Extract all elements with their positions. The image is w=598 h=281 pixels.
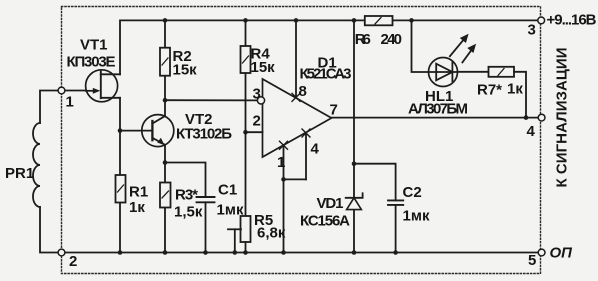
svg-text:К521СА3: К521СА3 [300,66,352,83]
node: pin 8 top on rail [294,18,299,23]
svg-text:КС156А: КС156А [300,213,350,230]
node: VD1 bottom on rail [352,250,357,255]
LED HL1 [429,58,458,87]
pin 1 cross mark [280,141,288,149]
svg-text:PR1: PR1 [5,165,34,182]
svg-text:ОП: ОП [550,245,574,262]
resistor R5 [241,216,251,242]
wire: pin 8 from top rail [295,20,297,97]
svg-text:3: 3 [528,22,536,39]
svg-text:1: 1 [66,94,74,111]
svg-text:КП303Е: КП303Е [67,54,116,71]
node: C1 bottom on rail [203,250,208,255]
wire: C1 branch [165,163,206,198]
terminal 4 [538,114,545,121]
node: LED branch on rail [409,18,414,23]
svg-text:2: 2 [69,253,77,270]
resistor R6 [365,16,393,25]
node: R7 branch on output line [524,115,529,120]
inductor PR1 sensor coil [33,91,58,253]
wire: pin 4 down [305,133,307,179]
resistor R3* [160,183,171,208]
node: VT2 collector junction [163,98,168,103]
wire: VT2 base [120,130,152,132]
wire: R7 to output line [514,72,526,118]
svg-text:4: 4 [311,141,320,158]
node: R5 tap on rail [233,250,238,255]
wire: R4 / R5 vertical [245,20,247,216]
svg-text:C2: C2 [403,184,422,201]
node: VD1 / C2 junction [352,161,357,166]
node: op-amp ground on rail [281,250,286,255]
node: emitter / C1 junction [163,160,168,165]
capacitor C2 [388,200,403,252]
transistor VT1 (JFET) [86,70,120,102]
node: R3 bottom on rail [163,250,168,255]
wire: pin1-pin4 link [284,178,307,180]
pin 4 cross mark [302,129,310,137]
svg-text:1к: 1к [507,81,523,98]
wire: top supply rail from VT1 drain to terminal 3 [120,20,538,74]
svg-text:6,8к: 6,8к [257,225,286,242]
svg-text:1мк: 1мк [217,202,244,219]
svg-text:15к: 15к [251,59,276,76]
wire: VT2 emitter down through R3 to rail [164,145,166,253]
node: C2 bottom on rail [393,250,398,255]
wire: op-amp ground to rail [283,179,285,252]
wire: op-amp pin 2 [246,131,263,133]
op-amp D1 triangle [263,79,332,157]
svg-text:VT1: VT1 [80,37,108,54]
wire: R2 lead / VT2 collector [164,20,166,116]
node: R5 bottom on rail [243,250,248,255]
zener diode VD1 [346,193,363,209]
svg-text:5: 5 [528,252,536,269]
node: R4 top on rail [243,18,248,23]
pin 3 inverting input circle [257,97,264,104]
svg-text:7: 7 [330,102,338,119]
svg-text:8: 8 [299,83,307,100]
transistor VT2 (NPN) [142,115,174,147]
node: VD1 top on rail [352,18,357,23]
resistor R1 [116,175,126,203]
pin 8 cross mark [292,93,300,101]
svg-text:3: 3 [253,86,261,103]
svg-text:КТ3102Б: КТ3102Б [176,126,232,143]
svg-text:+9...16В: +9...16В [547,12,597,29]
svg-text:R3*: R3* [175,187,198,204]
svg-text:4: 4 [527,123,536,140]
wire: VT1 gate to node 1 [65,90,86,92]
svg-text:VD1: VD1 [317,195,344,212]
svg-text:R6: R6 [355,31,371,48]
R5 tap to rail [228,229,241,252]
svg-text:15к: 15к [173,62,198,79]
terminal 3 [538,17,545,24]
svg-text:К СИГНАЛИЗАЦИИ: К СИГНАЛИЗАЦИИ [554,48,571,188]
wire: op-amp output pin 7 to terminal 4 [332,117,539,119]
node: R2 top on rail [163,18,168,23]
svg-text:1к: 1к [129,199,145,216]
resistor R7* [489,67,515,77]
svg-text:1: 1 [277,154,285,171]
capacitor C1 [197,197,215,253]
svg-text:1,5к: 1,5к [174,204,203,221]
terminal node 1 [58,87,65,94]
node: pin1/4 junction [281,177,286,182]
terminal node 2 [58,249,65,256]
LED arrows [450,34,476,63]
svg-text:АЛ307БМ: АЛ307БМ [408,101,468,118]
svg-text:1мк: 1мк [403,208,430,225]
svg-text:2: 2 [253,113,261,130]
node: R4 / pin 2 / R5 junction [243,130,248,135]
svg-text:C1: C1 [218,182,237,199]
terminal 5 [538,249,545,256]
enclosure dashed border [62,7,541,274]
wire: VT1 source down to R1 and bottom rail [119,98,121,253]
resistor R4 [241,46,251,73]
wire: bottom common rail from node 2 to terminal 5 [65,252,538,254]
node: R1 bottom on rail [118,250,123,255]
node: VT1 source / VT2 base junction [118,128,123,133]
wire: VD1 branch vertical [353,20,355,252]
wire: C2 branch [354,164,396,201]
svg-text:R7*: R7* [477,82,502,99]
wire: pin 1 down [283,145,285,179]
wire: LED branch [412,20,429,72]
resistor R2 [160,48,170,76]
wire: collector node to op-amp pin 3 [165,99,257,101]
svg-text:240: 240 [381,31,403,48]
svg-text:R1: R1 [129,184,148,201]
wire: LED to R7 [458,71,489,73]
